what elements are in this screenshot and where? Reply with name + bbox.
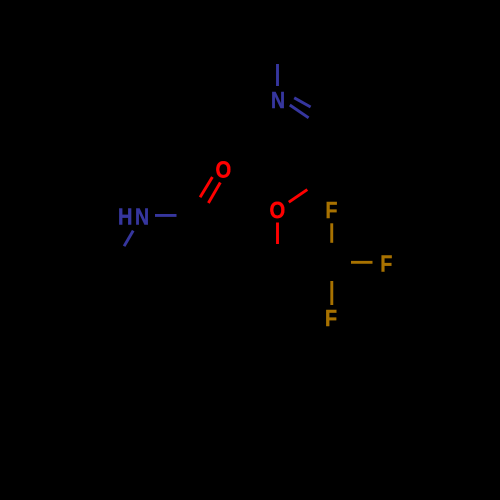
svg-text:F: F [380, 251, 392, 277]
svg-text:H: H [118, 203, 132, 229]
svg-text:N: N [271, 87, 285, 113]
svg-text:N: N [135, 203, 149, 229]
svg-text:O: O [269, 197, 285, 223]
svg-text:O: O [216, 157, 232, 183]
svg-text:F: F [325, 305, 337, 331]
svg-text:F: F [325, 197, 337, 223]
